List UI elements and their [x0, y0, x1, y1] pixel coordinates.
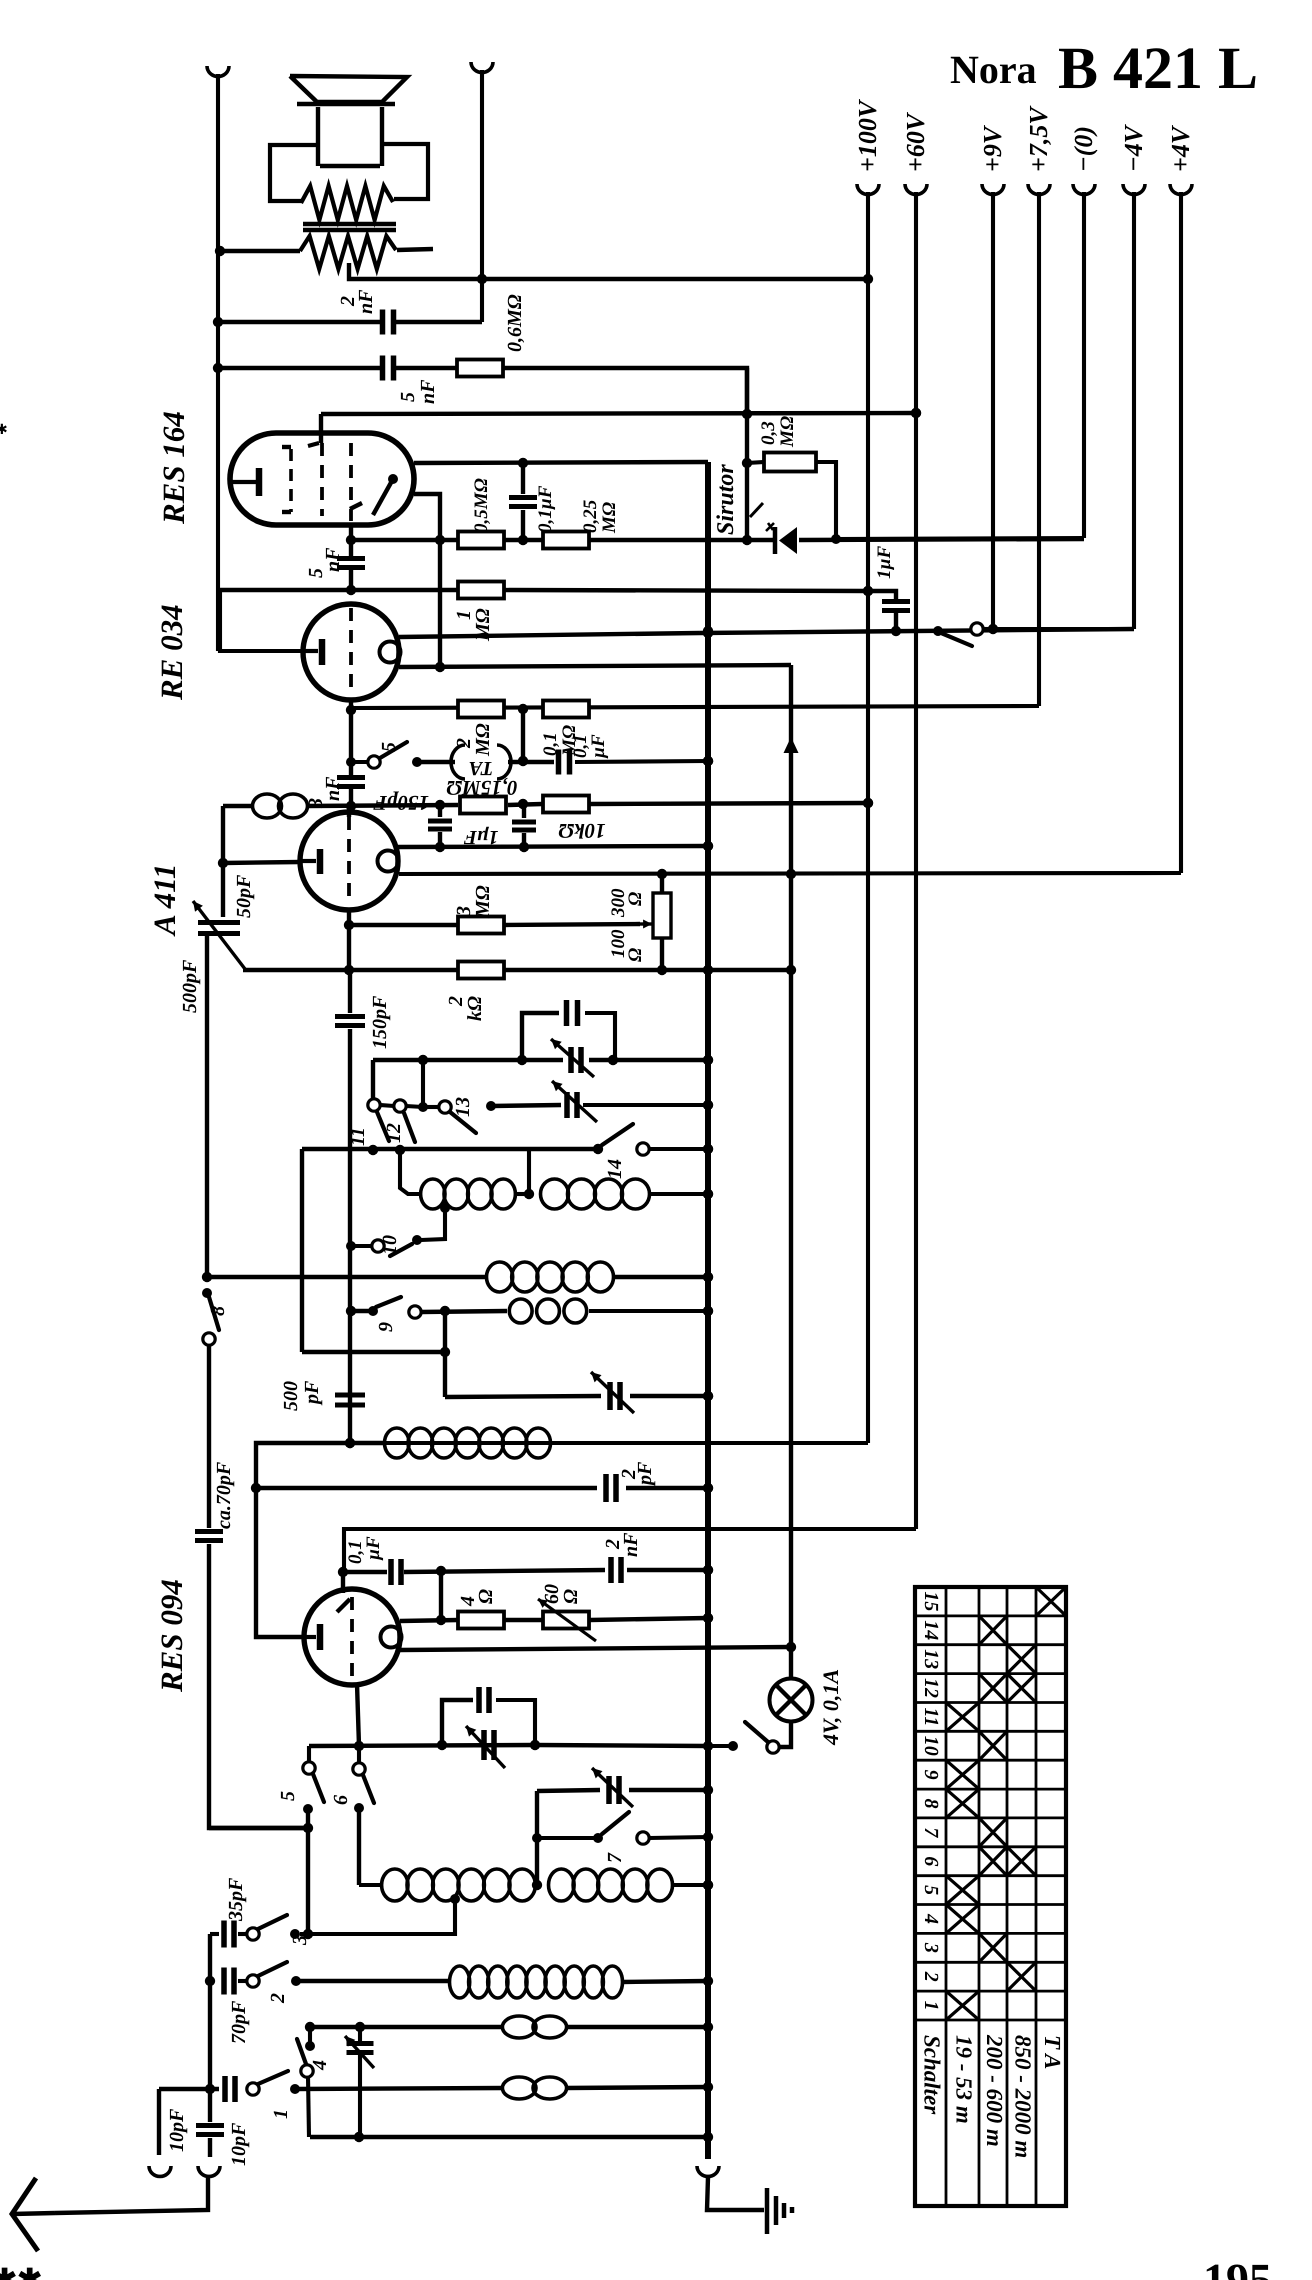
- wire 2nF row: [218, 320, 383, 324]
- svg-text:10pF: 10pF: [228, 2122, 250, 2166]
- capacitor C9 50pF trimmer: [198, 923, 240, 934]
- capacitor CT3 trimmer: [610, 1382, 620, 1410]
- wire left column upper: [221, 806, 225, 917]
- switch 9: [368, 1306, 378, 1316]
- tube V1 filament line: [282, 445, 291, 449]
- terminal earth jack: [697, 2166, 719, 2176]
- antenna arrow: [12, 2178, 38, 2251]
- switch 3 tap: [450, 1894, 460, 1904]
- svg-text:0,15MΩ: 0,15MΩ: [446, 776, 517, 800]
- svg-text:0,5MΩ: 0,5MΩ: [471, 478, 492, 533]
- wire V3 cathode lead left: [223, 862, 300, 863]
- inductor L7 (6 turns): [359, 1883, 382, 1887]
- node lever landings: [368, 1144, 603, 1155]
- tube V4 RES094 envelope: [304, 1589, 400, 1685]
- svg-text:Ω: Ω: [625, 892, 646, 906]
- tube V3 anode bump: [378, 851, 399, 872]
- svg-text:nF: nF: [322, 776, 344, 801]
- switch 8: [202, 1288, 212, 1298]
- wire antenna column lower: [209, 1544, 308, 1828]
- svg-text:4V, 0,1A: 4V, 0,1A: [818, 1669, 843, 1746]
- wire row 2089 cont: [295, 2088, 504, 2089]
- capacitor padder fixed: [567, 1000, 578, 1026]
- terminal +9V supply: [982, 184, 1004, 194]
- capacitor C3 5nF: [349, 540, 353, 559]
- switch 5 (TA selector): [346, 757, 356, 767]
- wire RE034-row corner down (lamp feed): [789, 665, 793, 1676]
- wire 0,1MΩ link down: [521, 709, 525, 761]
- resistor R9 3MΩ: [458, 917, 504, 934]
- wire row 2089: [159, 2087, 219, 2091]
- svg-text:µF: µF: [588, 734, 609, 759]
- svg-text:35pF: 35pF: [225, 1877, 247, 1922]
- svg-text:200 - 600 m: 200 - 600 m: [982, 2034, 1007, 2147]
- switch S17 lamp: [767, 1741, 779, 1753]
- svg-text:14: 14: [920, 1620, 942, 1640]
- svg-text:12: 12: [383, 1123, 405, 1143]
- switch S16 battery: [933, 626, 943, 636]
- svg-text:6: 6: [920, 1856, 942, 1866]
- tube V2 RE034 envelope: [303, 604, 399, 700]
- tube V1 anode: [373, 479, 393, 515]
- svg-text:nF: nF: [355, 289, 377, 314]
- wire row 2137: [310, 2135, 708, 2139]
- wire long row 1277: [207, 1275, 487, 1279]
- resistor R3 0,25MΩ: [543, 532, 589, 549]
- svg-text:15: 15: [920, 1591, 942, 1611]
- terminal −(0) supply: [1073, 184, 1095, 194]
- node 3nF bottom: [346, 801, 356, 811]
- svg-text:3: 3: [920, 1942, 942, 1953]
- node sw5-column row1934: [303, 1929, 313, 1939]
- svg-text:2: 2: [920, 1971, 942, 1982]
- svg-text:8: 8: [207, 1306, 229, 1316]
- terminal antenna jack A1: [149, 2166, 171, 2176]
- wire 0,1µF drop: [439, 1571, 443, 1620]
- capacitor C14 2nF: [611, 1557, 621, 1583]
- svg-text:8: 8: [920, 1799, 942, 1809]
- svg-text:µF: µF: [363, 1536, 384, 1561]
- wire row 1572 grid: [343, 1570, 387, 1574]
- wire row 1981: [296, 1979, 450, 1983]
- wire 3MΩ row: [349, 923, 458, 927]
- inductor L1 (2 turns): [253, 794, 282, 818]
- wire 35pF left drop: [208, 1934, 212, 2089]
- svg-text:MΩ: MΩ: [777, 416, 798, 448]
- node coil row 1885 bus: [703, 1880, 713, 1890]
- table frame (Schalter): [915, 1587, 1066, 2206]
- wire row 1488: [256, 1486, 597, 1490]
- potentiometer R11 100/300Ω: [653, 893, 671, 938]
- svg-text:0,6MΩ: 0,6MΩ: [504, 294, 526, 352]
- wire main bus: [705, 462, 711, 2159]
- node TA row junctions: [518, 756, 528, 766]
- capacitor C6 0,1µF: [559, 750, 570, 775]
- switch 13: [406, 1106, 423, 1107]
- wire +60V rail bottom corner: [344, 1529, 916, 1572]
- capacitor CT2 trimmer: [567, 1092, 577, 1118]
- wire V4 grid cap lead: [341, 1572, 345, 1593]
- svg-text:MΩ: MΩ: [472, 723, 494, 757]
- svg-text:150pF: 150pF: [369, 995, 391, 1049]
- svg-text:nF: nF: [620, 1532, 642, 1557]
- svg-text:195: 195: [1203, 2254, 1272, 2280]
- transformer TR1 box: [270, 145, 318, 201]
- svg-text:7: 7: [920, 1827, 942, 1838]
- wire antenna column mid: [207, 1345, 211, 1528]
- tube V3 grid top lead: [347, 806, 351, 817]
- svg-text:10: 10: [920, 1736, 942, 1756]
- switch 3: [247, 1928, 259, 1940]
- svg-text:+60V: +60V: [901, 111, 930, 172]
- capacitor C18 10pF shunt: [208, 2089, 212, 2122]
- inductor L6 (7 turns): [385, 1428, 410, 1458]
- wire row 2027: [310, 2025, 504, 2029]
- node row1488 left: [251, 1483, 261, 1493]
- wire +7,5V rail bottom corner: [352, 706, 1039, 708]
- svg-text:RE 034: RE 034: [154, 604, 189, 701]
- svg-text:Nora: Nora: [950, 47, 1037, 92]
- node +100V 10kΩ row: [863, 798, 873, 808]
- node row2137 junctions: [354, 2132, 364, 2142]
- wire main tuned row: [373, 1058, 563, 1062]
- svg-text:Ω: Ω: [560, 1589, 582, 1604]
- svg-text:+7,5V: +7,5V: [1024, 105, 1053, 172]
- wire −(0) rail: [1082, 192, 1086, 538]
- terminal speaker right: [471, 62, 493, 72]
- switch 10 tap: [440, 1203, 450, 1213]
- svg-text:MΩ: MΩ: [472, 885, 494, 919]
- wire V4 bottom lead: [357, 1684, 359, 1746]
- resistor R6 0,1MΩ: [543, 701, 589, 718]
- resistor R14 60Ω variable: [543, 1612, 589, 1629]
- wire row 1620 anode: [400, 1620, 458, 1621]
- wire row 1746: [309, 1745, 535, 1746]
- potentiometer wiper arrow: [640, 922, 652, 925]
- wire sw6 drop to coil: [357, 1808, 361, 1885]
- svg-text:4: 4: [920, 1913, 942, 1924]
- svg-text:0,25: 0,25: [580, 499, 601, 533]
- wire Sirutor pointer: [750, 503, 763, 517]
- node grid cap junction: [338, 1567, 348, 1577]
- inductor L10 (2 turns): [502, 2016, 536, 2038]
- wire V2 lower lead row: [399, 665, 791, 667]
- node 5nF/RE034 grid: [346, 585, 356, 595]
- node 2MΩ row junction: [346, 705, 356, 715]
- speaker LS1 throat: [316, 107, 320, 166]
- wire V3 bottom lead: [347, 910, 351, 970]
- svg-text:14: 14: [604, 1159, 626, 1179]
- switch 6 band: [357, 1746, 361, 1763]
- wire V3 anode row: [398, 846, 708, 847]
- node band row on bus: [703, 1144, 713, 1154]
- svg-text:850 - 2000 m: 850 - 2000 m: [1011, 2035, 1036, 2158]
- transformer TR1 secondary winding: [300, 236, 396, 269]
- wire Sirutor column: [745, 368, 749, 540]
- wire row 1397: [445, 1396, 601, 1397]
- svg-text:13: 13: [452, 1097, 474, 1117]
- svg-text:−4V: −4V: [1119, 123, 1148, 172]
- svg-text:kΩ: kΩ: [464, 996, 486, 1021]
- svg-text:70pF: 70pF: [228, 2000, 250, 2044]
- resistor R4 1MΩ: [458, 582, 504, 599]
- node coil7 junction: [532, 1880, 542, 1890]
- tube V2 grid dashes: [349, 608, 353, 695]
- svg-text:0,3: 0,3: [758, 421, 779, 445]
- switch 4: [308, 2027, 312, 2042]
- node speaker-left/secondary junction: [215, 246, 225, 256]
- svg-text:+9V: +9V: [978, 124, 1007, 172]
- svg-text:2: 2: [267, 1993, 289, 2004]
- tube V1 RES164 envelope: [230, 433, 414, 525]
- switch 11: [371, 1060, 375, 1099]
- terminal +60V supply: [905, 184, 927, 194]
- svg-text:✱: ✱: [0, 423, 8, 438]
- node row1397 bus: [703, 1391, 713, 1401]
- svg-text:nF: nF: [417, 379, 439, 404]
- node tuned row junctions: [418, 1055, 713, 1065]
- resistor R7 0,15MΩ: [460, 797, 506, 814]
- wire V1 upper lead to bus top: [414, 462, 708, 463]
- node pot junctions: [657, 869, 667, 975]
- svg-text:500pF: 500pF: [179, 959, 201, 1013]
- capacitor C15 35pF: [210, 1932, 219, 1936]
- node row805 taps: [435, 799, 528, 810]
- capacitor 5nF: [383, 356, 394, 381]
- svg-text:9: 9: [375, 1322, 397, 1332]
- terminal +7,5V supply: [1028, 184, 1050, 194]
- node anode row on bus: [703, 628, 713, 638]
- capacitor C-1µF supply: [868, 591, 896, 599]
- node junctions on +9V rail: [988, 624, 998, 634]
- wire 150pF/0,15MΩ row: [223, 804, 254, 808]
- svg-text:✱✱: ✱✱: [0, 2264, 42, 2280]
- node junctions on +100V rail: [863, 274, 873, 808]
- tube V4 grid arrow: [337, 1599, 350, 1612]
- inductor L3 (4 turns): [541, 1179, 569, 1209]
- svg-text:T A: T A: [1040, 2035, 1065, 2069]
- node 2MΩ/0,1MΩ: [518, 704, 528, 714]
- resistor R5 2MΩ: [458, 701, 504, 718]
- wire row 1648 screen to lamp line: [400, 1647, 791, 1650]
- terminal +100V supply: [857, 184, 879, 194]
- svg-text:500: 500: [280, 1381, 302, 1411]
- svg-text:RES 164: RES 164: [156, 411, 191, 525]
- capacitor padder2 fixed: [479, 1687, 489, 1713]
- ground symbol: [765, 2188, 770, 2234]
- wire V2 anode row to −4V: [399, 633, 700, 637]
- resistor R1 0,6MΩ: [457, 360, 503, 377]
- tube V2 anode bump: [380, 642, 401, 663]
- svg-text:12: 12: [920, 1678, 942, 1698]
- svg-text:1: 1: [920, 2001, 942, 2011]
- wire 12-link down: [421, 1060, 425, 1107]
- node bus junctions: [703, 626, 713, 2142]
- svg-text:10kΩ: 10kΩ: [558, 819, 606, 843]
- wire +100V rail bottom corner: [256, 1441, 868, 1445]
- speaker LS1 horn: [290, 76, 407, 102]
- transformer TR1 core: [303, 222, 396, 226]
- resistor R12 0,3MΩ: [747, 462, 764, 463]
- svg-text:Ω: Ω: [475, 1589, 497, 1604]
- capacitor CT6 trimmer: [358, 2027, 362, 2041]
- node anode row junctions: [435, 841, 713, 852]
- node V2 lower / V1 anode: [435, 662, 445, 672]
- svg-text:+100V: +100V: [853, 98, 882, 172]
- wire secondary left lead: [220, 249, 300, 253]
- node battery switch / +9V / −4V: [988, 624, 998, 634]
- diode D1 Sirutor: [779, 527, 797, 554]
- wire left antenna branch: [157, 2089, 161, 2155]
- wire −(0) rail bottom corner: [836, 538, 1084, 539]
- svg-text:5: 5: [378, 742, 400, 752]
- node row1352: [440, 1347, 450, 1357]
- tube V2 cathode: [304, 649, 318, 653]
- switch 2: [247, 1975, 259, 1987]
- wire grid-leak row 1MΩ: [220, 588, 458, 592]
- wire row1443 left end: [256, 1443, 385, 1488]
- node row1443 junctions: [345, 1438, 355, 1448]
- wire lamp bottom: [779, 1721, 791, 1747]
- svg-text:7: 7: [604, 1852, 626, 1863]
- node screen/0,5MΩ: [346, 535, 356, 545]
- node 1MΩ row at +100V: [863, 586, 873, 596]
- svg-text:5: 5: [277, 1791, 299, 1801]
- svg-text:Sirutor: Sirutor: [713, 464, 739, 535]
- capacitor C16 70pF: [224, 1968, 234, 1995]
- capacitor C4 0,1µF: [521, 463, 525, 494]
- node row1828: [303, 1823, 313, 1833]
- svg-text:50pF: 50pF: [233, 874, 255, 918]
- tube V4 anode bump: [381, 1627, 402, 1648]
- svg-text:11: 11: [920, 1707, 942, 1726]
- wire left column lower: [205, 934, 209, 1277]
- wire row 1311: [351, 1309, 369, 1313]
- switch 1: [247, 2083, 259, 2095]
- node row1572 junctions: [436, 1565, 713, 1576]
- svg-text:B 421 L: B 421 L: [1058, 35, 1258, 101]
- tube V1 screen dashes: [349, 443, 353, 521]
- wire −4V rail bottom corner: [993, 627, 1134, 631]
- node 10pF junction: [205, 2084, 215, 2094]
- wire antenna lead: [55, 2178, 208, 2213]
- capacitor CT1 trimmer: [571, 1047, 581, 1073]
- node trimmer drop junctions: [532, 1833, 542, 1843]
- node row1277 bus: [703, 1272, 713, 1282]
- svg-text:MΩ: MΩ: [599, 502, 620, 534]
- node 70pF row left: [205, 1976, 215, 1986]
- svg-text:ca.70pF: ca.70pF: [213, 1461, 235, 1529]
- node anode row junctions: [436, 1615, 446, 1625]
- tube V3 A411 envelope: [300, 812, 398, 910]
- node cathode/left column: [218, 858, 228, 868]
- wire coil lead from 12: [400, 1150, 421, 1194]
- wire +4V rail: [1179, 192, 1183, 873]
- capacitor C11 500pF: [335, 1395, 365, 1405]
- wire V1 screen bottom lead: [349, 525, 353, 540]
- capacitor C17 10pF: [225, 2076, 235, 2102]
- table X marks: [1036, 1587, 1066, 1616]
- wire grid-cap row to +60V: [321, 413, 916, 414]
- terminal speaker left: [207, 66, 229, 76]
- wire +7,5V rail: [1037, 192, 1041, 706]
- wire bias row 0,5MΩ–Sirutor–(0): [351, 538, 458, 542]
- switch 7: [593, 1833, 603, 1843]
- tube V1 cathode: [230, 480, 256, 484]
- wire row 1828: [209, 1826, 308, 1830]
- capacitor C12 2pF: [606, 1474, 616, 1502]
- capacitor C7 150pF: [438, 805, 442, 817]
- node row1311 junctions: [346, 1306, 713, 1316]
- node lamp feed junctions: [786, 869, 796, 1652]
- resistor R2 0,5MΩ: [458, 532, 504, 549]
- node 1µF bottom: [891, 626, 901, 636]
- wire row 1838: [537, 1836, 594, 1840]
- wire band row left drop: [300, 1149, 304, 1352]
- tube V3 grid dashes: [347, 817, 351, 904]
- wire sw5 drop: [306, 1809, 310, 1934]
- svg-text:150pF: 150pF: [373, 791, 429, 815]
- node coil row on bus: [703, 1189, 713, 1199]
- svg-text:Ω: Ω: [625, 948, 646, 962]
- node centre-tap/right-terminal junction: [477, 274, 487, 284]
- inductor L9 (9 turns): [450, 1966, 470, 1998]
- svg-text:0,1µF: 0,1µF: [535, 485, 556, 533]
- svg-text:11: 11: [347, 1127, 369, 1146]
- svg-text:5: 5: [397, 392, 419, 402]
- node coil junction: [524, 1189, 534, 1199]
- tube V4 grid dashes: [350, 1597, 354, 1680]
- tube V3 cathode: [300, 859, 316, 863]
- wire 2kΩ row: [243, 968, 458, 972]
- wire earth lead: [707, 2177, 764, 2210]
- svg-text:4: 4: [309, 2060, 331, 2071]
- wire 13 to trimmer: [486, 1101, 496, 1111]
- node 5nF row left: [213, 363, 223, 373]
- wire −4V rail: [1132, 192, 1136, 629]
- resistor R13 4Ω: [458, 1612, 504, 1629]
- svg-text:19 - 53 m: 19 - 53 m: [952, 2035, 977, 2124]
- wire RES164 grid cap lead: [319, 414, 323, 443]
- inductor L4 (5 turns): [487, 1262, 513, 1292]
- node 500pF bottom: [345, 1438, 355, 1448]
- transformer TR1 primary winding: [301, 186, 393, 220]
- wire V1 lower lead (anode out): [414, 494, 440, 667]
- node grid row / +60V rail: [911, 408, 921, 418]
- inductor L8 (5 turns): [549, 1869, 575, 1901]
- svg-text:Schalter: Schalter: [920, 2035, 945, 2115]
- svg-text:nF: nF: [322, 547, 344, 572]
- wire lamp feed arrowhead: [784, 737, 799, 753]
- connector TA arcs: [451, 745, 465, 779]
- svg-text:A 411: A 411: [147, 863, 182, 937]
- svg-text:+4V: +4V: [1166, 124, 1195, 172]
- node junctions on +60V rail: [911, 408, 921, 418]
- svg-text:5: 5: [920, 1885, 942, 1895]
- svg-text:13: 13: [920, 1649, 942, 1669]
- capacitor CT4 trimmer: [484, 1730, 494, 1760]
- node 2kΩ row junctions: [344, 965, 796, 975]
- svg-text:10pF: 10pF: [166, 2108, 188, 2152]
- node sirutor column junctions: [742, 409, 752, 545]
- node row1277 left: [202, 1272, 212, 1282]
- lamp LA1 4V 0,1A: [770, 1679, 813, 1722]
- node 3MΩ row left: [344, 920, 354, 930]
- svg-text:TA: TA: [469, 757, 493, 779]
- wire +4V rail bottom corner: [399, 873, 1181, 874]
- svg-text:−(0): −(0): [1069, 126, 1098, 172]
- svg-text:1: 1: [270, 2109, 292, 2119]
